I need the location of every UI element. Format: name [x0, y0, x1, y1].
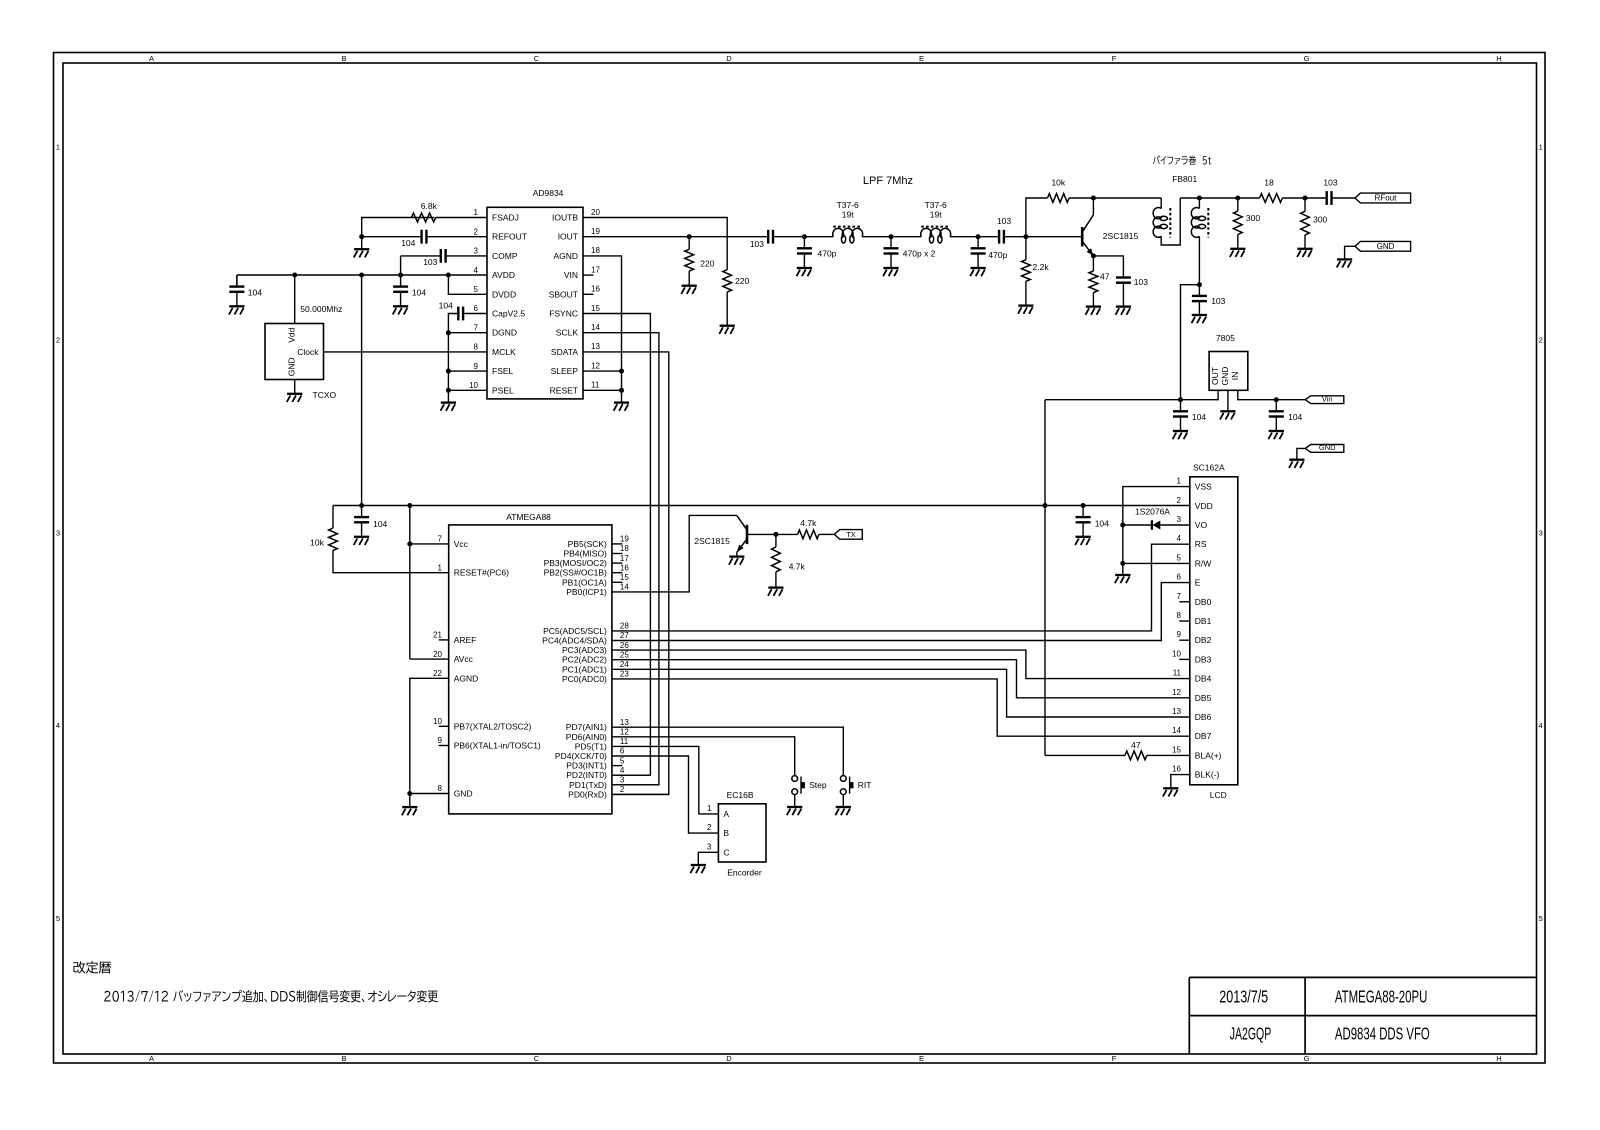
- svg-text:10k: 10k: [1051, 178, 1065, 188]
- svg-text:1: 1: [1177, 477, 1182, 486]
- svg-text:AD9834: AD9834: [533, 188, 564, 198]
- svg-text:COMP: COMP: [492, 251, 518, 261]
- svg-text:LPF 7Mhz: LPF 7Mhz: [863, 175, 913, 187]
- svg-text:8: 8: [1177, 611, 1182, 620]
- svg-text:GND: GND: [1220, 367, 1230, 386]
- svg-text:PC0(ADC0): PC0(ADC0): [562, 674, 607, 684]
- svg-text:DB4: DB4: [1195, 674, 1212, 684]
- svg-text:3: 3: [474, 247, 479, 256]
- svg-text:Vdd: Vdd: [287, 327, 297, 342]
- svg-text:13: 13: [620, 718, 629, 727]
- svg-text:LCD: LCD: [1210, 790, 1227, 800]
- svg-text:Clock: Clock: [297, 347, 319, 357]
- svg-text:12: 12: [1172, 688, 1181, 697]
- svg-text:AREF: AREF: [454, 635, 477, 645]
- svg-text:TCXO: TCXO: [313, 390, 337, 400]
- svg-text:103: 103: [1134, 277, 1148, 287]
- svg-text:10: 10: [1172, 649, 1181, 658]
- svg-text:470p: 470p: [818, 248, 837, 258]
- svg-text:5: 5: [1177, 553, 1182, 562]
- svg-text:5: 5: [1539, 914, 1543, 923]
- svg-text:2: 2: [1177, 496, 1182, 505]
- svg-text:2: 2: [1539, 336, 1543, 345]
- svg-text:PC5(ADC5/SCL): PC5(ADC5/SCL): [543, 626, 607, 636]
- svg-text:B: B: [723, 828, 729, 838]
- svg-text:20: 20: [591, 208, 600, 217]
- svg-text:Vcc: Vcc: [454, 539, 469, 549]
- svg-text:E: E: [1195, 578, 1201, 588]
- svg-text:17: 17: [591, 265, 600, 274]
- svg-text:27: 27: [620, 631, 629, 640]
- svg-text:FSYNC: FSYNC: [549, 309, 578, 319]
- svg-text:D: D: [726, 1054, 732, 1063]
- svg-text:2: 2: [56, 336, 60, 345]
- svg-text:17: 17: [620, 554, 629, 563]
- svg-text:VO: VO: [1195, 520, 1208, 530]
- svg-text:PD4(XCK/T0): PD4(XCK/T0): [555, 751, 607, 761]
- svg-text:9: 9: [1177, 630, 1182, 639]
- svg-text:1: 1: [56, 143, 60, 152]
- svg-text:18: 18: [1264, 178, 1274, 188]
- svg-text:6: 6: [474, 304, 479, 313]
- svg-text:PB7(XTAL2/TOSC2): PB7(XTAL2/TOSC2): [454, 721, 532, 731]
- svg-text:104: 104: [401, 238, 415, 248]
- svg-text:PC1(ADC1): PC1(ADC1): [562, 664, 607, 674]
- svg-text:3: 3: [1539, 528, 1543, 537]
- svg-text:1: 1: [707, 804, 712, 813]
- svg-text:E: E: [919, 1054, 924, 1063]
- svg-text:C: C: [534, 54, 540, 63]
- svg-text:6.8k: 6.8k: [421, 201, 438, 211]
- svg-text:470p x 2: 470p x 2: [903, 248, 936, 258]
- svg-text:DVDD: DVDD: [492, 289, 516, 299]
- svg-text:OUT: OUT: [1210, 367, 1220, 385]
- svg-text:Encorder: Encorder: [727, 868, 762, 878]
- svg-text:F: F: [1112, 1054, 1117, 1063]
- svg-text:9: 9: [438, 736, 443, 745]
- svg-text:T37-6: T37-6: [925, 200, 947, 210]
- svg-text:PD7(AIN1): PD7(AIN1): [566, 722, 607, 732]
- svg-text:22: 22: [433, 669, 442, 678]
- svg-text:SDATA: SDATA: [551, 347, 578, 357]
- svg-text:4.7k: 4.7k: [789, 562, 806, 572]
- svg-text:7: 7: [1177, 592, 1182, 601]
- svg-text:SC162A: SC162A: [1193, 462, 1225, 472]
- svg-text:5: 5: [620, 756, 625, 765]
- svg-text:11: 11: [620, 737, 629, 746]
- svg-text:PB2(SS#/OC1B): PB2(SS#/OC1B): [544, 568, 607, 578]
- svg-text:DGND: DGND: [492, 328, 517, 338]
- svg-text:A: A: [149, 1054, 154, 1063]
- svg-text:R/W: R/W: [1195, 558, 1212, 568]
- svg-text:13: 13: [591, 342, 600, 351]
- svg-text:20: 20: [433, 650, 442, 659]
- svg-text:GND: GND: [1319, 443, 1336, 452]
- svg-text:3: 3: [1177, 515, 1182, 524]
- svg-text:24: 24: [620, 660, 629, 669]
- svg-text:104: 104: [412, 288, 426, 298]
- svg-text:PC4(ADC4/SDA): PC4(ADC4/SDA): [542, 636, 607, 646]
- svg-text:RESET: RESET: [550, 385, 578, 395]
- svg-text:DB7: DB7: [1195, 731, 1212, 741]
- svg-text:C: C: [723, 847, 729, 857]
- svg-text:PD1(TxD): PD1(TxD): [569, 780, 607, 790]
- svg-text:D: D: [726, 54, 732, 63]
- svg-text:H: H: [1496, 1054, 1501, 1063]
- svg-text:G: G: [1304, 1054, 1310, 1063]
- svg-text:PD6(AIN0): PD6(AIN0): [566, 732, 607, 742]
- svg-text:16: 16: [591, 285, 600, 294]
- svg-text:4: 4: [1539, 721, 1543, 730]
- svg-text:28: 28: [620, 622, 629, 631]
- svg-text:220: 220: [700, 259, 714, 269]
- svg-text:1: 1: [1539, 143, 1543, 152]
- svg-text:2: 2: [474, 227, 479, 236]
- svg-text:1S2076A: 1S2076A: [1135, 507, 1170, 517]
- svg-text:10: 10: [469, 381, 478, 390]
- svg-text:PC3(ADC3): PC3(ADC3): [562, 645, 607, 655]
- svg-text:GND: GND: [1377, 242, 1395, 251]
- svg-text:2: 2: [707, 823, 712, 832]
- svg-text:10: 10: [433, 717, 442, 726]
- svg-text:103: 103: [997, 216, 1011, 226]
- svg-text:19t: 19t: [930, 210, 942, 220]
- svg-text:PB1(OC1A): PB1(OC1A): [562, 577, 607, 587]
- svg-text:14: 14: [620, 583, 629, 592]
- svg-text:CapV2.5: CapV2.5: [492, 309, 525, 319]
- svg-text:VDD: VDD: [1195, 501, 1213, 511]
- svg-text:103: 103: [1211, 296, 1225, 306]
- svg-text:PB4(MISO): PB4(MISO): [563, 549, 607, 559]
- svg-text:RIT: RIT: [858, 780, 872, 790]
- svg-text:19t: 19t: [842, 210, 854, 220]
- svg-text:DB1: DB1: [1195, 616, 1212, 626]
- svg-text:47: 47: [1100, 271, 1110, 281]
- svg-text:RESET#(PC6): RESET#(PC6): [454, 568, 509, 578]
- svg-text:2013/7/5: 2013/7/5: [1219, 987, 1268, 1007]
- svg-text:220: 220: [735, 276, 749, 286]
- svg-text:AVDD: AVDD: [492, 270, 515, 280]
- svg-text:IOUT: IOUT: [558, 232, 578, 242]
- svg-text:DB0: DB0: [1195, 597, 1212, 607]
- svg-text:VIN: VIN: [564, 270, 578, 280]
- svg-text:ATMEGA88-20PU: ATMEGA88-20PU: [1335, 987, 1428, 1007]
- svg-text:DB6: DB6: [1195, 712, 1212, 722]
- svg-text:103: 103: [1323, 178, 1337, 188]
- svg-text:23: 23: [620, 670, 629, 679]
- svg-text:7: 7: [474, 323, 479, 332]
- svg-text:GND: GND: [287, 357, 297, 376]
- svg-text:RS: RS: [1195, 539, 1207, 549]
- svg-text:MCLK: MCLK: [492, 347, 516, 357]
- svg-text:11: 11: [591, 381, 600, 390]
- svg-text:19: 19: [591, 227, 600, 236]
- svg-text:103: 103: [423, 257, 437, 267]
- svg-text:19: 19: [620, 535, 629, 544]
- svg-text:4: 4: [1177, 534, 1182, 543]
- svg-text:12: 12: [620, 728, 629, 737]
- svg-text:1: 1: [474, 208, 479, 217]
- svg-text:18: 18: [620, 544, 629, 553]
- svg-text:10k: 10k: [310, 538, 324, 548]
- svg-text:IOUTB: IOUTB: [552, 213, 578, 223]
- svg-text:2SC1815: 2SC1815: [1103, 231, 1139, 241]
- svg-text:FB801: FB801: [1172, 174, 1197, 184]
- svg-text:104: 104: [439, 300, 453, 310]
- svg-text:BLA(+): BLA(+): [1195, 750, 1222, 760]
- svg-text:PD2(INT0): PD2(INT0): [566, 770, 607, 780]
- svg-text:12: 12: [591, 361, 600, 370]
- svg-text:16: 16: [620, 563, 629, 572]
- svg-text:103: 103: [750, 239, 764, 249]
- svg-text:IN: IN: [1230, 372, 1240, 381]
- svg-text:8: 8: [474, 343, 479, 352]
- svg-text:E: E: [919, 54, 924, 63]
- svg-text:A: A: [723, 809, 729, 819]
- svg-text:15: 15: [591, 304, 600, 313]
- svg-text:DB2: DB2: [1195, 635, 1212, 645]
- svg-text:FSEL: FSEL: [492, 366, 514, 376]
- svg-text:ATMEGA88: ATMEGA88: [506, 512, 551, 522]
- svg-text:2.2k: 2.2k: [1033, 262, 1050, 272]
- svg-text:300: 300: [1313, 215, 1327, 225]
- svg-text:14: 14: [591, 323, 600, 332]
- svg-text:Vin: Vin: [1322, 394, 1333, 403]
- svg-text:Step: Step: [809, 780, 827, 790]
- svg-text:PD3(INT1): PD3(INT1): [566, 761, 607, 771]
- svg-text:1: 1: [438, 563, 443, 572]
- svg-text:3: 3: [620, 776, 625, 785]
- svg-text:VSS: VSS: [1195, 482, 1212, 492]
- svg-text:DB5: DB5: [1195, 693, 1212, 703]
- svg-text:SLEEP: SLEEP: [551, 366, 579, 376]
- svg-text:FSADJ: FSADJ: [492, 213, 519, 223]
- svg-text:104: 104: [373, 519, 387, 529]
- svg-text:SBOUT: SBOUT: [549, 289, 578, 299]
- svg-text:5: 5: [56, 914, 60, 923]
- svg-text:9: 9: [474, 362, 479, 371]
- svg-text:26: 26: [620, 641, 629, 650]
- svg-text:7805: 7805: [1216, 333, 1235, 343]
- svg-text:AD9834 DDS VFO: AD9834 DDS VFO: [1335, 1023, 1430, 1043]
- svg-text:BLK(-): BLK(-): [1195, 770, 1220, 780]
- svg-text:PSEL: PSEL: [492, 385, 514, 395]
- svg-text:470p: 470p: [988, 250, 1007, 260]
- svg-text:B: B: [341, 1054, 346, 1063]
- svg-text:104: 104: [248, 288, 262, 298]
- svg-text:JA2GQP: JA2GQP: [1230, 1023, 1272, 1043]
- svg-text:50.000Mhz: 50.000Mhz: [300, 304, 342, 314]
- svg-text:6: 6: [620, 747, 625, 756]
- svg-text:F: F: [1112, 54, 1117, 63]
- svg-text:AGND: AGND: [553, 251, 578, 261]
- svg-text:21: 21: [433, 631, 442, 640]
- svg-text:PB0(ICP1): PB0(ICP1): [566, 587, 607, 597]
- svg-text:4: 4: [620, 766, 625, 775]
- svg-text:H: H: [1496, 54, 1501, 63]
- svg-text:REFOUT: REFOUT: [492, 232, 527, 242]
- svg-text:PB5(SCK): PB5(SCK): [568, 539, 607, 549]
- svg-text:PC2(ADC2): PC2(ADC2): [562, 655, 607, 665]
- svg-text:GND: GND: [454, 789, 473, 799]
- svg-text:AGND: AGND: [454, 673, 479, 683]
- svg-text:A: A: [149, 54, 154, 63]
- svg-text:104: 104: [1192, 412, 1206, 422]
- svg-text:PD0(RxD): PD0(RxD): [568, 789, 607, 799]
- svg-text:5: 5: [474, 285, 479, 294]
- svg-text:PB3(MOSI/OC2): PB3(MOSI/OC2): [544, 558, 607, 568]
- svg-text:C: C: [534, 1054, 540, 1063]
- svg-text:PB6(XTAL1-in/TOSC1): PB6(XTAL1-in/TOSC1): [454, 741, 541, 751]
- svg-text:14: 14: [1172, 726, 1181, 735]
- svg-text:T37-6: T37-6: [837, 200, 859, 210]
- svg-text:8: 8: [438, 784, 443, 793]
- svg-text:AVcc: AVcc: [454, 654, 474, 664]
- svg-text:DB3: DB3: [1195, 654, 1212, 664]
- svg-text:15: 15: [1172, 745, 1181, 754]
- svg-text:PD5(T1): PD5(T1): [575, 741, 607, 751]
- svg-text:B: B: [341, 54, 346, 63]
- svg-text:104: 104: [1288, 412, 1302, 422]
- svg-text:4: 4: [56, 721, 60, 730]
- svg-text:2: 2: [620, 785, 625, 794]
- svg-text:104: 104: [1095, 519, 1109, 529]
- svg-text:EC16B: EC16B: [727, 790, 754, 800]
- svg-text:RFout: RFout: [1375, 194, 1398, 203]
- svg-text:300: 300: [1246, 213, 1260, 223]
- svg-text:47: 47: [1131, 740, 1141, 750]
- svg-text:SCLK: SCLK: [556, 328, 579, 338]
- svg-text:25: 25: [620, 650, 629, 659]
- svg-text:15: 15: [620, 573, 629, 582]
- svg-text:13: 13: [1172, 707, 1181, 716]
- svg-text:3: 3: [707, 842, 712, 851]
- svg-text:3: 3: [56, 528, 60, 537]
- svg-text:16: 16: [1172, 765, 1181, 774]
- svg-text:4.7k: 4.7k: [800, 518, 817, 528]
- svg-text:7: 7: [438, 535, 443, 544]
- svg-text:2SC1815: 2SC1815: [694, 536, 730, 546]
- svg-text:11: 11: [1173, 669, 1182, 678]
- svg-text:G: G: [1304, 54, 1310, 63]
- svg-text:6: 6: [1177, 573, 1182, 582]
- svg-text:TX: TX: [846, 530, 856, 539]
- svg-text:4: 4: [474, 266, 479, 275]
- svg-text:18: 18: [591, 246, 600, 255]
